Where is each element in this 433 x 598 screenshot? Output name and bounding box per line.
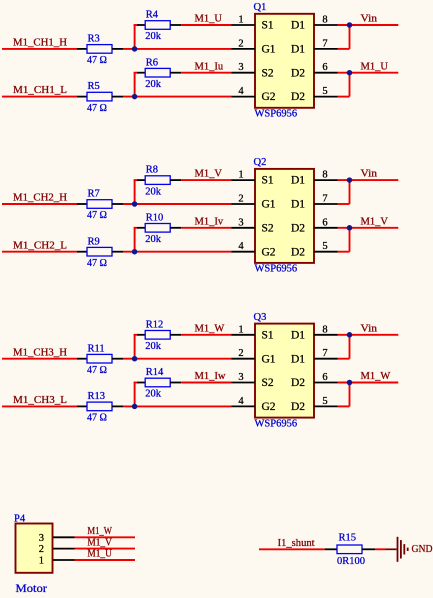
svg-text:R11: R11 [88, 343, 105, 354]
resistor R14 (20k) [145, 367, 170, 400]
junction node M1_CH1_H/R4 [132, 46, 138, 52]
resistor R6 (20k) [145, 57, 170, 90]
svg-text:Q1: Q1 [254, 2, 267, 13]
svg-text:47 Ω: 47 Ω [87, 210, 107, 221]
svg-text:D2: D2 [291, 401, 305, 413]
R9 left lead [77, 251, 87, 253]
R13 left lead [77, 405, 87, 407]
svg-text:7: 7 [322, 194, 327, 205]
wire M1_Iw to pin 3 [181, 382, 231, 384]
svg-text:0R100: 0R100 [337, 556, 365, 567]
svg-text:20k: 20k [145, 31, 162, 42]
junction node M1_CH2_H/R8 [132, 201, 138, 207]
resistor R10 (20k) [145, 212, 170, 245]
svg-text:2: 2 [39, 544, 44, 555]
MOSFET array Q3 WSP6956 [254, 312, 315, 429]
svg-text:4: 4 [238, 241, 244, 252]
svg-text:47 Ω: 47 Ω [87, 103, 107, 114]
resistor R7 (47 ohm) [87, 189, 112, 222]
Q2 pin 7 [314, 194, 338, 205]
svg-text:WSP6956: WSP6956 [255, 109, 298, 120]
svg-text:M1_CH2_H: M1_CH2_H [13, 193, 67, 204]
wire R13 to pin 4 [123, 405, 232, 407]
R3 right lead [112, 48, 123, 50]
svg-text:WSP6956: WSP6956 [255, 418, 298, 429]
svg-text:20k: 20k [145, 341, 162, 352]
svg-text:D1: D1 [291, 20, 305, 32]
R13 right lead [112, 405, 123, 407]
svg-text:20k: 20k [145, 79, 162, 90]
svg-text:5: 5 [322, 241, 327, 252]
svg-text:6: 6 [322, 217, 327, 228]
wire pin 8 to Vin [338, 24, 399, 26]
svg-text:R4: R4 [146, 10, 159, 21]
svg-text:3: 3 [39, 533, 44, 544]
wire P4 pin 3 net M1_W [75, 536, 136, 538]
Q3 pin 6 [314, 372, 338, 383]
svg-text:47 Ω: 47 Ω [87, 365, 107, 376]
svg-text:R10: R10 [146, 212, 164, 223]
R8 right lead [170, 179, 181, 181]
svg-text:S2: S2 [262, 222, 274, 234]
svg-text:D1: D1 [291, 175, 305, 187]
R14 left lead [137, 382, 145, 384]
R7 left lead [77, 203, 87, 205]
svg-text:D2: D2 [291, 377, 305, 389]
wire pin 5 stub [338, 96, 350, 98]
Q2 pin 8 [314, 170, 338, 181]
svg-text:R12: R12 [146, 319, 164, 330]
R5 left lead [77, 96, 87, 98]
resistor R13 (47 ohm) [87, 391, 112, 424]
Q1 pin 8 [314, 15, 338, 26]
resistor R12 (20k) [145, 319, 170, 352]
R3 left lead [77, 48, 87, 50]
svg-text:3: 3 [238, 372, 243, 383]
svg-text:M1_W: M1_W [361, 371, 391, 382]
R9 right lead [112, 251, 123, 253]
svg-text:M1_Iw: M1_Iw [195, 371, 226, 382]
svg-text:M1_CH3_H: M1_CH3_H [13, 347, 67, 358]
svg-text:M1_CH3_L: M1_CH3_L [13, 395, 67, 406]
wire pin 5 stub [338, 405, 350, 407]
Q2 pin 2 [232, 194, 256, 205]
junction M1_W node [347, 380, 353, 386]
wire M1_W to pin 1 [181, 334, 231, 336]
svg-text:R9: R9 [88, 236, 100, 247]
R8 left lead [137, 179, 145, 181]
svg-text:Vin: Vin [361, 323, 378, 334]
svg-text:G1: G1 [262, 199, 276, 211]
svg-text:D1: D1 [291, 353, 305, 365]
wire R11 to pin 2 [123, 358, 232, 360]
junction Vin node [347, 332, 353, 338]
resistor R9 (47 ohm) [87, 236, 112, 269]
junction Vin node [347, 177, 353, 183]
wire I1_shunt to R15 [259, 548, 325, 550]
wire R7 to pin 2 [123, 203, 232, 205]
svg-text:5: 5 [322, 396, 327, 407]
wire corner to R8 [134, 179, 137, 181]
svg-text:8: 8 [322, 170, 327, 181]
R11 right lead [112, 358, 123, 360]
wire M1_V to pin 1 [181, 179, 231, 181]
R12 right lead [170, 334, 181, 336]
svg-text:M1_V: M1_V [361, 216, 389, 227]
svg-text:6: 6 [322, 62, 327, 73]
svg-text:R14: R14 [146, 367, 164, 378]
svg-text:Q3: Q3 [254, 312, 267, 323]
resistor R11 (47 ohm) [87, 343, 112, 376]
Q3 pin 1 [232, 324, 256, 335]
connector P4 [14, 513, 53, 573]
Q1 pin 5 [314, 86, 338, 97]
wire corner to R14 [134, 382, 137, 384]
svg-text:M1_CH1_L: M1_CH1_L [13, 85, 67, 96]
svg-text:G2: G2 [262, 91, 276, 103]
svg-text:Vin: Vin [361, 169, 378, 180]
Q1 pin 2 [232, 38, 256, 49]
resistor R3 (47 ohm) [87, 34, 112, 67]
resistor R15 (0R100) [337, 533, 365, 568]
wire R5 to pin 4 [123, 96, 232, 98]
svg-text:1: 1 [238, 15, 243, 26]
svg-text:D2: D2 [291, 91, 305, 103]
svg-text:4: 4 [238, 396, 244, 407]
svg-text:R6: R6 [146, 57, 158, 68]
wire pin 5 up to M1_W node [349, 383, 351, 407]
wire R15 to GND [375, 548, 386, 550]
svg-text:Vin: Vin [361, 14, 378, 25]
svg-text:R15: R15 [339, 533, 357, 544]
svg-text:P4: P4 [14, 513, 26, 524]
junction Vin node [347, 22, 353, 28]
junction M1_U node [347, 70, 353, 76]
wire pin 5 stub [338, 251, 350, 253]
svg-text:20k: 20k [145, 389, 162, 400]
svg-text:1: 1 [39, 556, 44, 567]
svg-text:GND: GND [412, 544, 433, 555]
R7 right lead [112, 203, 123, 205]
svg-text:G1: G1 [262, 44, 276, 56]
P4 pin 2 [39, 544, 75, 555]
svg-text:WSP6956: WSP6956 [255, 264, 298, 275]
Q1 pin 3 [232, 62, 256, 73]
svg-text:3: 3 [238, 62, 243, 73]
svg-text:R8: R8 [146, 165, 158, 176]
junction node M1_CH1_L/R6 [132, 94, 138, 100]
R15 left lead [325, 548, 337, 550]
wire pin 7 stub [338, 358, 350, 360]
svg-text:S1: S1 [262, 175, 274, 187]
wire pin 8 to Vin [338, 334, 399, 336]
Q3 pin 7 [314, 348, 338, 359]
MOSFET array Q2 WSP6956 [254, 157, 315, 274]
R15 right lead [362, 548, 375, 550]
R10 left lead [137, 227, 145, 229]
wire P4 pin 1 net M1_U [75, 559, 136, 561]
Q2 pin 1 [232, 170, 256, 181]
wire M1_CH1_L to R5 [2, 96, 77, 98]
svg-text:1: 1 [238, 170, 243, 181]
svg-text:2: 2 [238, 348, 243, 359]
svg-text:D1: D1 [291, 44, 305, 56]
wire corner to R6 [134, 72, 137, 74]
svg-text:S2: S2 [262, 67, 274, 79]
wire M1_CH2_H to R7 [2, 203, 77, 205]
wire junction up to R4 [134, 25, 136, 49]
svg-text:M1_V: M1_V [195, 169, 223, 180]
wire junction up to R14 [134, 383, 136, 407]
Q2 pin 4 [232, 241, 256, 252]
svg-text:M1_CH1_H: M1_CH1_H [13, 38, 67, 49]
svg-text:20k: 20k [145, 186, 162, 197]
junction node M1_CH3_H/R12 [132, 356, 138, 362]
svg-text:5: 5 [322, 86, 327, 97]
svg-text:G1: G1 [262, 353, 276, 365]
svg-text:1: 1 [238, 324, 243, 335]
wire pin 7 up to Vin node [349, 25, 351, 49]
svg-text:7: 7 [322, 348, 327, 359]
wire M1_U to pin 1 [181, 24, 231, 26]
Q2 pin 5 [314, 241, 338, 252]
svg-text:M1_CH2_L: M1_CH2_L [13, 240, 67, 251]
wire corner to R12 [134, 334, 137, 336]
resistor R5 (47 ohm) [87, 81, 112, 114]
P4 pin 1 [39, 556, 75, 567]
wire pin 5 up to M1_V node [349, 228, 351, 252]
wire pin 5 up to M1_U node [349, 73, 351, 97]
wire M1_CH2_L to R9 [2, 251, 77, 253]
svg-text:M1_Iv: M1_Iv [195, 216, 224, 227]
Q1 pin 7 [314, 38, 338, 49]
svg-text:D1: D1 [291, 199, 305, 211]
R4 left lead [137, 24, 145, 26]
wire M1_CH1_H to R3 [2, 48, 77, 50]
svg-text:G2: G2 [262, 246, 276, 258]
wire junction up to R12 [134, 335, 136, 359]
wire M1_CH3_H to R11 [2, 358, 77, 360]
resistor R8 (20k) [145, 165, 170, 198]
svg-text:G2: G2 [262, 401, 276, 413]
wire pin 6 to M1_V [338, 227, 399, 229]
svg-text:R5: R5 [88, 81, 100, 92]
svg-text:D1: D1 [291, 329, 305, 341]
svg-text:20k: 20k [145, 234, 162, 245]
svg-text:R3: R3 [88, 34, 100, 45]
junction M1_V node [347, 225, 353, 231]
svg-text:S1: S1 [262, 20, 274, 32]
R5 right lead [112, 96, 123, 98]
wire M1_Iu to pin 3 [181, 72, 231, 74]
R6 right lead [170, 72, 181, 74]
wire M1_Iv to pin 3 [181, 227, 231, 229]
svg-text:47 Ω: 47 Ω [87, 258, 107, 269]
svg-text:8: 8 [322, 324, 327, 335]
svg-text:47 Ω: 47 Ω [87, 55, 107, 66]
svg-text:S2: S2 [262, 377, 274, 389]
svg-text:Motor: Motor [16, 581, 48, 595]
Q3 pin 4 [232, 396, 256, 407]
svg-text:7: 7 [322, 38, 327, 49]
svg-text:M1_V: M1_V [87, 537, 112, 548]
svg-text:M1_U: M1_U [87, 549, 112, 560]
svg-text:R7: R7 [88, 189, 100, 200]
Q3 pin 3 [232, 372, 256, 383]
Q3 pin 5 [314, 396, 338, 407]
P4 pin 3 [39, 533, 75, 544]
wire pin 6 to M1_U [338, 72, 399, 74]
svg-text:D2: D2 [291, 222, 305, 234]
wire corner to R4 [134, 24, 137, 26]
svg-text:S1: S1 [262, 329, 274, 341]
wire R3 to pin 2 [123, 48, 232, 50]
wire junction up to R8 [134, 180, 136, 204]
svg-text:M1_W: M1_W [195, 323, 225, 334]
svg-text:R13: R13 [88, 391, 106, 402]
junction node M1_CH3_L/R14 [132, 404, 138, 410]
R6 left lead [137, 72, 145, 74]
Q2 pin 3 [232, 217, 256, 228]
R10 right lead [170, 227, 181, 229]
wire pin 8 to Vin [338, 179, 399, 181]
svg-text:D2: D2 [291, 246, 305, 258]
wire pin 6 to M1_W [338, 382, 399, 384]
Q1 pin 6 [314, 62, 338, 73]
svg-text:Q2: Q2 [254, 157, 267, 168]
junction node M1_CH2_L/R10 [132, 249, 138, 255]
Q1 pin 4 [232, 86, 256, 97]
wire corner to R10 [134, 227, 137, 229]
svg-text:8: 8 [322, 15, 327, 26]
R4 right lead [170, 24, 181, 26]
svg-text:M1_W: M1_W [87, 526, 112, 537]
wire junction up to R6 [134, 73, 136, 97]
svg-text:M1_Iu: M1_Iu [195, 61, 224, 72]
wire pin 7 up to Vin node [349, 180, 351, 204]
svg-text:3: 3 [238, 217, 243, 228]
Q2 pin 6 [314, 217, 338, 228]
ground GND power symbol [386, 537, 433, 562]
R11 left lead [77, 358, 87, 360]
wire pin 7 up to Vin node [349, 335, 351, 359]
svg-text:M1_U: M1_U [195, 14, 223, 25]
Q1 pin 1 [232, 15, 256, 26]
wire R9 to pin 4 [123, 251, 232, 253]
R14 right lead [170, 382, 181, 384]
svg-text:6: 6 [322, 372, 327, 383]
Q3 pin 2 [232, 348, 256, 359]
wire pin 7 stub [338, 48, 350, 50]
svg-text:D2: D2 [291, 67, 305, 79]
wire P4 pin 2 net M1_V [75, 548, 136, 550]
svg-text:I1_shunt: I1_shunt [278, 538, 315, 549]
svg-text:2: 2 [238, 194, 243, 205]
svg-text:4: 4 [238, 86, 244, 97]
wire M1_CH3_L to R13 [2, 405, 77, 407]
resistor R4 (20k) [145, 10, 170, 43]
svg-text:2: 2 [238, 38, 243, 49]
Q3 pin 8 [314, 324, 338, 335]
wire pin 7 stub [338, 203, 350, 205]
wire junction up to R10 [134, 228, 136, 252]
svg-text:M1_U: M1_U [361, 61, 389, 72]
svg-text:47 Ω: 47 Ω [87, 413, 107, 424]
MOSFET array Q1 WSP6956 [254, 2, 315, 119]
R12 left lead [137, 334, 145, 336]
